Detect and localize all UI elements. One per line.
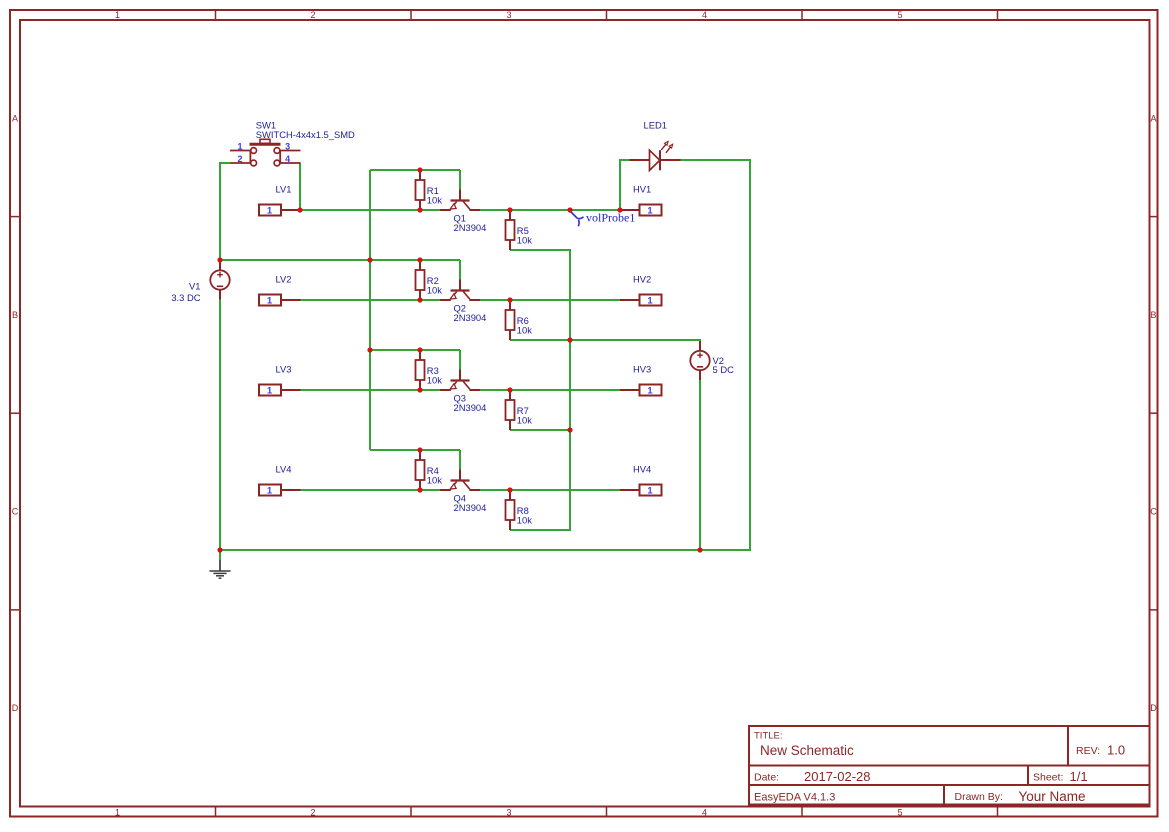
svg-text:3: 3 — [506, 807, 511, 817]
svg-text:2N3904: 2N3904 — [454, 222, 487, 233]
svg-text:volProbe1: volProbe1 — [586, 211, 635, 225]
svg-text:HV1: HV1 — [633, 184, 651, 195]
svg-text:1: 1 — [115, 10, 120, 20]
svg-text:TITLE:: TITLE: — [754, 731, 783, 742]
svg-text:B: B — [1150, 310, 1156, 320]
svg-text:1.0: 1.0 — [1107, 743, 1125, 758]
svg-text:HV3: HV3 — [633, 364, 651, 375]
svg-text:3.3 DC: 3.3 DC — [171, 292, 200, 303]
svg-text:Date:: Date: — [754, 772, 779, 784]
svg-text:10k: 10k — [427, 475, 442, 486]
svg-text:10k: 10k — [427, 285, 442, 296]
svg-text:10k: 10k — [427, 375, 442, 386]
svg-text:2: 2 — [310, 10, 315, 20]
svg-text:5: 5 — [897, 10, 902, 20]
svg-text:2N3904: 2N3904 — [454, 402, 487, 413]
svg-text:Sheet:: Sheet: — [1033, 772, 1063, 784]
svg-text:2N3904: 2N3904 — [454, 502, 487, 513]
svg-text:Your Name: Your Name — [1019, 789, 1086, 804]
svg-text:D: D — [1150, 703, 1157, 713]
svg-text:HV4: HV4 — [633, 464, 651, 475]
svg-text:10k: 10k — [517, 415, 532, 426]
svg-text:C: C — [1150, 507, 1157, 517]
svg-text:2N3904: 2N3904 — [454, 312, 487, 323]
svg-text:4: 4 — [702, 807, 707, 817]
svg-text:LV2: LV2 — [276, 274, 292, 285]
svg-text:LED1: LED1 — [644, 120, 667, 131]
svg-text:A: A — [12, 114, 18, 124]
svg-text:B: B — [12, 310, 18, 320]
svg-text:A: A — [1150, 114, 1156, 124]
svg-text:10k: 10k — [517, 325, 532, 336]
svg-text:EasyEDA V4.1.3: EasyEDA V4.1.3 — [754, 792, 835, 804]
svg-text:C: C — [12, 507, 19, 517]
svg-text:10k: 10k — [517, 235, 532, 246]
svg-text:1/1: 1/1 — [1070, 769, 1088, 784]
svg-text:3: 3 — [285, 142, 290, 152]
svg-text:HV2: HV2 — [633, 274, 651, 285]
svg-text:1: 1 — [115, 807, 120, 817]
svg-text:5 DC: 5 DC — [713, 364, 735, 375]
svg-text:10k: 10k — [427, 195, 442, 206]
svg-text:Drawn By:: Drawn By: — [955, 791, 1003, 803]
svg-text:REV:: REV: — [1076, 745, 1100, 757]
svg-text:V1: V1 — [189, 281, 200, 292]
svg-text:4: 4 — [702, 10, 707, 20]
svg-text:LV3: LV3 — [276, 364, 292, 375]
svg-text:3: 3 — [506, 10, 511, 20]
svg-text:2017-02-28: 2017-02-28 — [804, 769, 871, 784]
svg-text:4: 4 — [285, 154, 290, 164]
svg-text:SWITCH-4x4x1.5_SMD: SWITCH-4x4x1.5_SMD — [256, 129, 355, 140]
svg-text:LV1: LV1 — [276, 184, 292, 195]
svg-text:New Schematic: New Schematic — [760, 743, 854, 758]
svg-text:2: 2 — [237, 154, 242, 164]
svg-text:D: D — [12, 703, 19, 713]
svg-text:10k: 10k — [517, 515, 532, 526]
svg-text:1: 1 — [237, 142, 242, 152]
svg-text:LV4: LV4 — [276, 464, 292, 475]
svg-text:2: 2 — [310, 807, 315, 817]
svg-text:5: 5 — [897, 807, 902, 817]
